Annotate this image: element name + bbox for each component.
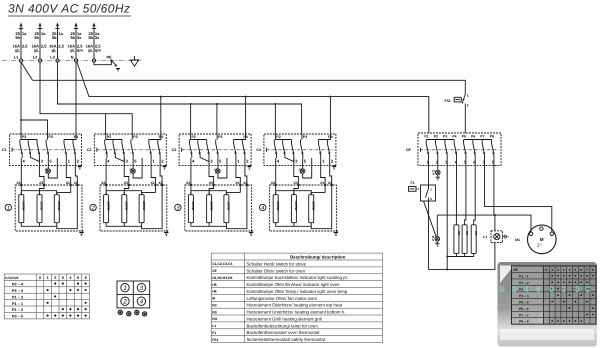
node plate 3: [175, 204, 181, 211]
svg-text:1: 1: [47, 276, 49, 280]
wire L1 drop: [494, 215, 496, 231]
wire bus C (L3 bus): [58, 62, 302, 134]
svg-text:OF: OF: [406, 148, 412, 152]
svg-text:M1: M1: [515, 238, 520, 242]
hotplate layout map: [117, 281, 150, 317]
svg-text:P1 – 2: P1 – 2: [12, 308, 23, 312]
watermark glyphs: [499, 284, 591, 294]
wire L3 drop to C3 P3: [216, 104, 218, 134]
svg-text:P8: P8: [490, 135, 494, 139]
svg-text:C2: C2: [87, 148, 92, 152]
wire N drop to C3: [245, 97, 247, 134]
wire F1 diagonal to lamp H6: [424, 201, 437, 236]
wire RC feed: [455, 158, 457, 225]
svg-text:3: 3: [140, 285, 144, 292]
svg-text:6: 6: [85, 276, 87, 280]
svg-text:2,5: 2,5: [58, 44, 64, 49]
svg-text:gL: gL: [15, 47, 20, 52]
supply line L3: [49, 23, 65, 63]
svg-text:4: 4: [569, 268, 571, 272]
node heater bus: [446, 256, 448, 258]
ground (main earth symbol): [130, 56, 138, 66]
wire bottom return bus: [429, 243, 495, 270]
svg-text:0: 0: [39, 276, 41, 280]
svg-text:1a: 1a: [41, 31, 46, 36]
svg-text:Kontrolllampe Ofen Temp./ indi: Kontrolllampe Ofen Temp./ indicator ligh…: [247, 289, 349, 294]
wire N diagonal to bus B: [77, 62, 89, 97]
wire bus D (L2 bus): [40, 62, 132, 134]
node plate 2: [90, 204, 96, 211]
svg-text:6: 6: [536, 284, 541, 294]
svg-text:3x: 3x: [77, 35, 82, 40]
svg-text:H1,H2,H3,H4: H1,H2,H3,H4: [212, 276, 232, 280]
svg-text:P8 – 8: P8 – 8: [519, 320, 529, 324]
switch C1 + hotplate 1: [10, 134, 84, 236]
svg-text:6: 6: [432, 238, 434, 242]
svg-text:PE: PE: [107, 56, 113, 60]
svg-text:F1: F1: [411, 181, 415, 185]
svg-text:N: N: [71, 55, 74, 59]
svg-text:P1 – 1: P1 – 1: [12, 302, 23, 306]
watermark panel: [498, 262, 598, 347]
supply line L1: [13, 23, 29, 63]
heater RS: [462, 225, 469, 254]
svg-text:S: S: [499, 284, 505, 294]
wire F1 to bottom bus: [428, 201, 430, 269]
title 3N 400V AC 50/60Hz: [8, 2, 131, 17]
svg-text:P1 – 1: P1 – 1: [519, 274, 529, 278]
switch C2 + hotplate 2: [94, 134, 168, 236]
svg-text:L2: L2: [33, 55, 37, 59]
node N/C2 junction: [160, 96, 162, 98]
svg-text:RS: RS: [465, 231, 469, 235]
wire L1 down to C1: [20, 62, 22, 134]
svg-text:P2 – 4: P2 – 4: [12, 283, 24, 287]
svg-text:C3: C3: [172, 148, 177, 152]
svg-text:FS1: FS1: [212, 338, 218, 342]
legend table: [211, 253, 382, 343]
node L3/C3 junction: [190, 103, 192, 105]
svg-text:P5 – 5: P5 – 5: [519, 300, 529, 304]
svg-text:P2: P2: [434, 135, 438, 139]
svg-text:3: 3: [62, 276, 64, 280]
svg-text:Kontrolllampe Ofen Ein/Aus/ in: Kontrolllampe Ofen Ein/Aus/ indicator li…: [247, 282, 341, 287]
svg-text:5b: 5b: [15, 35, 20, 40]
svg-text:gL: gL: [88, 47, 93, 52]
svg-text:Heizelement Oberhitze/ heating: Heizelement Oberhitze/ heating element t…: [247, 303, 343, 308]
svg-text:3: 3: [177, 205, 180, 211]
svg-text:5: 5: [433, 172, 435, 176]
svg-text:C: C: [585, 284, 591, 294]
supply line N: [68, 23, 84, 63]
svg-text:0: 0: [549, 284, 554, 294]
svg-text:P1 – 3: P1 – 3: [12, 295, 23, 299]
wire RS feed: [465, 158, 466, 225]
contact OF P1: [424, 135, 429, 165]
svg-text:OF: OF: [513, 268, 519, 272]
wire L1 diagonal to bus A: [21, 62, 33, 80]
svg-text:3x: 3x: [95, 35, 100, 40]
lamp H6: [432, 215, 440, 246]
contact OF P7: [480, 135, 485, 165]
svg-text:P4: P4: [452, 135, 456, 139]
svg-text:5: 5: [77, 276, 79, 280]
svg-text:P3: P3: [443, 135, 447, 139]
wire OF8 to lamp bus: [493, 158, 495, 215]
svg-text:Kontrolllampe Kochstellen/ ind: Kontrolllampe Kochstellen/ indicator lig…: [247, 275, 348, 280]
svg-text:L3: L3: [50, 55, 54, 59]
svg-text:C1: C1: [2, 148, 7, 152]
svg-text:RS: RS: [212, 310, 217, 314]
svg-text:6: 6: [580, 268, 582, 272]
svg-text:gL: gL: [70, 47, 75, 52]
svg-text:5b: 5b: [34, 35, 39, 40]
svg-text:7: 7: [586, 268, 588, 272]
node L1 junction: [20, 119, 22, 121]
motor M1: [515, 225, 556, 254]
svg-text:Heizelement Grill/ heating ele: Heizelement Grill/ heating element grill: [247, 316, 322, 321]
svg-text:OF: OF: [212, 269, 217, 273]
svg-text:1~: 1~: [537, 242, 543, 248]
supply dash-dot line: [2, 60, 141, 62]
svg-text:P6: P6: [471, 135, 475, 139]
wire L3 drop to C3 P2: [190, 104, 192, 134]
svg-text:3N 400V AC 50/60Hz: 3N 400V AC 50/60Hz: [8, 2, 130, 16]
wire L2 drop to C2: [105, 114, 107, 134]
wire lamp/motor bus: [437, 215, 531, 232]
svg-text:RG: RG: [474, 231, 478, 236]
svg-text:5b: 5b: [52, 35, 57, 40]
wire bus A (L1 phase bus to FS1): [33, 80, 466, 94]
svg-text:1: 1: [551, 268, 553, 272]
contact OF P3: [443, 135, 448, 165]
svg-text:RG: RG: [212, 317, 217, 321]
wire C1 P3 feed stub: [21, 120, 48, 134]
svg-text:1: 1: [467, 94, 469, 98]
svg-text:qm: qm: [77, 47, 83, 52]
svg-text:5: 5: [574, 268, 576, 272]
svg-text:L1: L1: [14, 55, 18, 59]
svg-text:F1: F1: [212, 331, 216, 335]
svg-text:8: 8: [592, 268, 594, 272]
heater RC: [454, 225, 461, 254]
contact OF P4: [452, 135, 457, 165]
svg-text:FS1: FS1: [445, 99, 451, 103]
svg-text:2: 2: [122, 299, 127, 306]
switch position table C: [4, 274, 89, 319]
wire heater bottom bus: [447, 256, 474, 258]
svg-text:Backofenbeleuchtung/ lamp for: Backofenbeleuchtung/ lamp for oven: [247, 323, 319, 328]
svg-text:P1: P1: [424, 135, 428, 139]
svg-text:qm: qm: [95, 47, 101, 52]
lamp L1: [483, 231, 508, 243]
svg-text:P4 – 4: P4 – 4: [519, 294, 529, 298]
wire OF top jumper: [426, 139, 454, 141]
svg-text:H5: H5: [212, 283, 216, 287]
svg-text:L1: L1: [483, 235, 487, 239]
svg-text:Schalter Herd/ switch for stov: Schalter Herd/ switch for stove: [247, 261, 307, 266]
svg-text:2: 2: [91, 205, 95, 211]
svg-text:H6: H6: [212, 290, 216, 294]
switch C3 + hotplate 3: [179, 134, 253, 236]
wire N drop to C4: [329, 97, 331, 134]
wire OF3 down: [446, 158, 448, 257]
svg-text:2,5: 2,5: [22, 44, 28, 49]
svg-text:4: 4: [524, 284, 529, 294]
contact OF P2: [434, 135, 439, 165]
svg-text:M: M: [540, 237, 544, 242]
svg-text:3: 3: [561, 284, 566, 294]
node L3/C4 junction: [274, 103, 276, 105]
svg-text:1a: 1a: [58, 31, 63, 36]
svg-text:3: 3: [563, 268, 565, 272]
contact OF P8: [490, 135, 495, 165]
thermostat F1: [409, 158, 436, 201]
contact OF P6: [471, 135, 476, 165]
svg-text:C4: C4: [256, 148, 261, 152]
node N/C3 junction: [245, 96, 247, 98]
svg-text:Backofenthermostat/ oven therm: Backofenthermostat/ oven thermostat: [247, 330, 321, 335]
svg-text:C/1/2/3/4: C/1/2/3/4: [5, 276, 19, 280]
wire N drop to C2: [160, 97, 162, 134]
svg-text:4: 4: [140, 299, 144, 306]
svg-text:5b: 5b: [70, 35, 75, 40]
thermostat FS1: [445, 94, 469, 133]
svg-text:0: 0: [545, 268, 547, 272]
oven switch table: [512, 266, 597, 324]
svg-text:1: 1: [123, 285, 127, 292]
heater RG: [471, 225, 478, 254]
svg-text:2: 2: [512, 284, 517, 294]
node plate 1: [5, 204, 11, 211]
contact OF P5: [462, 135, 467, 165]
node PE: [94, 56, 120, 71]
svg-text:2: 2: [54, 276, 56, 280]
svg-text:Beschreibung/ description: Beschreibung/ description: [290, 254, 346, 259]
wire RG feed: [474, 158, 476, 225]
hotplate icons: [118, 310, 148, 317]
svg-text:Schalter Ofen/ switch for oven: Schalter Ofen/ switch for oven: [247, 268, 306, 273]
svg-text:L1: L1: [212, 324, 216, 328]
svg-text:P6 – 6: P6 – 6: [519, 307, 529, 311]
svg-text:Lüftungsmotor Ofen/ fan motor: Lüftungsmotor Ofen/ fan motor oven: [247, 296, 318, 301]
op switch OF box: [406, 133, 501, 165]
svg-text:1a: 1a: [22, 31, 27, 36]
supply line PE: [86, 23, 102, 63]
lamp H5: [432, 158, 440, 180]
svg-text:gL: gL: [34, 47, 39, 52]
svg-text:P5: P5: [462, 135, 466, 139]
svg-text:C1,C2,C3,C4: C1,C2,C3,C4: [212, 262, 232, 266]
wire bus B (N bus to OF P1): [89, 97, 429, 133]
node N/C4 junction: [329, 96, 331, 98]
svg-text:5b: 5b: [88, 35, 93, 40]
svg-text:2: 2: [557, 268, 559, 272]
svg-text:gL: gL: [52, 47, 57, 52]
node plate 4: [260, 204, 266, 211]
svg-text:2: 2: [467, 104, 469, 108]
svg-text:P2 – 3: P2 – 3: [12, 289, 23, 293]
wire N down to C1: [75, 62, 77, 134]
svg-text:Heizelement Unterhitze/ heatin: Heizelement Unterhitze/ heating element …: [247, 310, 346, 315]
node L3/C3b junction: [216, 103, 218, 105]
svg-text:RC: RC: [212, 304, 217, 308]
svg-text:Sicherheitsthermostat/ safety: Sicherheitsthermostat/ safety thermostat: [247, 337, 326, 342]
svg-text:P7 – 7: P7 – 7: [519, 313, 529, 317]
wire L3 drop to C4 P2: [274, 104, 276, 134]
switch C4 + hotplate 4: [264, 134, 338, 236]
svg-text:P7: P7: [480, 135, 484, 139]
supply line L2: [32, 23, 48, 63]
svg-text:M: M: [212, 297, 215, 301]
svg-text:1: 1: [7, 205, 10, 211]
svg-text:0: 0: [575, 284, 580, 294]
svg-text:4: 4: [261, 205, 264, 211]
svg-text:2,5: 2,5: [41, 44, 47, 49]
wire OF7 to motor: [485, 158, 552, 232]
svg-text:P3 – 5: P3 – 5: [12, 315, 23, 319]
